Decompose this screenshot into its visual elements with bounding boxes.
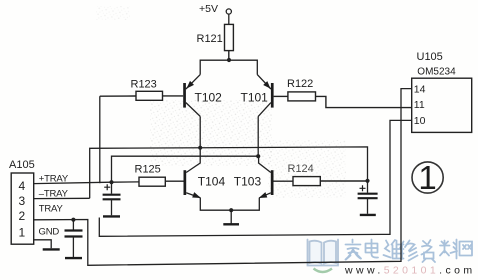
transistor T104 — [184, 148, 201, 198]
transistor T101 — [257, 75, 273, 117]
svg-text:14: 14 — [414, 83, 426, 95]
collector rail wire (to pin10 net) — [90, 147, 368, 198]
ground of right capacitor — [360, 214, 376, 216]
svg-text:1: 1 — [19, 225, 26, 239]
node R124 / pin10 net / capacitor — [365, 179, 369, 183]
-TRAY wire (pin3) — [34, 197, 90, 199]
svg-text:1: 1 — [418, 159, 436, 196]
top rail wire — [200, 60, 257, 74]
ground bar of tray capacitor — [65, 257, 82, 259]
node T102/T104 collectors — [198, 146, 202, 150]
svg-text:2: 2 — [19, 209, 26, 223]
capacitor C right (polarized) — [358, 181, 378, 214]
capacitor C tray (TRAY node) — [65, 220, 83, 257]
svg-text:R121: R121 — [197, 33, 223, 45]
TRAY wire (pin2) — [34, 89, 412, 266]
wire R123 to +TRAY line — [99, 96, 101, 183]
svg-text:R122: R122 — [287, 78, 313, 90]
+TRAY wire (pin4) — [34, 182, 139, 184]
svg-text:www.520101.com: www.520101.com — [344, 265, 476, 277]
node TRAY / cap — [71, 218, 75, 222]
resistor R125 — [139, 177, 184, 186]
svg-text:+5V: +5V — [199, 3, 218, 15]
node T101/T103 collectors — [256, 154, 260, 158]
capacitor C left (polarized, +TRAY node) — [103, 182, 121, 215]
node +TRAY / cap — [109, 180, 113, 184]
svg-text:U105: U105 — [417, 51, 443, 63]
svg-text:TRAY: TRAY — [39, 204, 64, 215]
+5V supply terminal — [226, 9, 231, 25]
svg-text:11: 11 — [414, 99, 425, 111]
svg-text:T102: T102 — [195, 91, 223, 105]
svg-text:A105: A105 — [9, 159, 35, 171]
svg-text:3: 3 — [19, 194, 26, 208]
IC U105 box — [412, 78, 472, 132]
emitter junction node — [229, 208, 233, 212]
resistor R124 — [274, 177, 368, 186]
svg-text:T101: T101 — [241, 91, 269, 105]
svg-text:–TRAY: –TRAY — [39, 189, 69, 200]
transistor T102 — [183, 75, 200, 117]
svg-text:T103: T103 — [234, 174, 262, 188]
resistor R123 — [100, 91, 183, 100]
emitter ground — [223, 210, 239, 224]
connector A105 box — [11, 173, 34, 244]
ground bar of left capacitor — [103, 215, 120, 217]
svg-text:OM5234: OM5234 — [417, 67, 456, 78]
GND pin ground bar — [43, 248, 60, 250]
transistor T103 — [259, 156, 274, 198]
T102 collector wire — [199, 116, 201, 147]
svg-text:+TRAY: +TRAY — [39, 173, 69, 184]
ground rail wire to pin10 — [99, 120, 411, 236]
svg-text:GND: GND — [39, 226, 60, 237]
svg-text:4: 4 — [19, 179, 26, 193]
resistor R121 — [225, 24, 234, 60]
emitter bus wire T104/T103 — [200, 198, 259, 210]
resistor R122 — [274, 92, 412, 108]
svg-text:R124: R124 — [288, 163, 314, 175]
background screentone + watermark (decorative) — [96, 6, 346, 198]
svg-text:T104: T104 — [198, 174, 226, 188]
GND wire (pin1) — [34, 240, 52, 249]
svg-text:R123: R123 — [131, 78, 157, 90]
T101 collector wire — [257, 116, 259, 156]
junction node at R121 bottom — [227, 58, 231, 62]
rail to T101/T103 node — [112, 156, 259, 182]
circled 1 figure marker — [412, 159, 443, 196]
svg-text:10: 10 — [414, 115, 426, 127]
svg-text:R125: R125 — [135, 163, 161, 175]
